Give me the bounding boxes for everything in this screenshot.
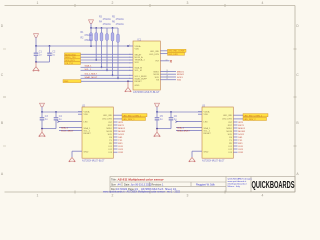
ground GND2 xyxy=(125,81,131,91)
svg-text:470ohm: 470ohm xyxy=(103,19,111,21)
svg-text:IO31: IO31 xyxy=(118,152,124,154)
svg-text:Size: Size xyxy=(111,183,116,186)
svg-text:RESET: RESET xyxy=(204,133,212,135)
svg-text:10: 10 xyxy=(166,59,168,61)
wire VCC stem xyxy=(35,37,37,46)
svg-text:LED_IND_CONN_2: LED_IND_CONN_2 xyxy=(244,115,263,117)
svg-text:VDD: VDD xyxy=(135,49,140,51)
svg-text:LED_IND: LED_IND xyxy=(103,115,112,117)
node junction (157,112) xyxy=(156,111,158,113)
svg-text:MOSI: MOSI xyxy=(107,131,113,133)
svg-text:GND: GND xyxy=(135,85,140,87)
svg-text:SCK_RX1: SCK_RX1 xyxy=(65,60,75,62)
svg-text:AS7265X-MULTI-BLGT: AS7265X-MULTI-BLGT xyxy=(133,91,160,94)
svg-text:Reggiani W. 5dlk: Reggiani W. 5dlk xyxy=(196,183,216,186)
capacitor C1 xyxy=(34,46,43,62)
svg-text:19: 19 xyxy=(166,78,168,80)
svg-text:MOSI1: MOSI1 xyxy=(118,131,126,133)
svg-text:SCL1_MULT: SCL1_MULT xyxy=(85,74,98,76)
svg-text:LED: LED xyxy=(204,121,209,123)
svg-text:4: 4 xyxy=(262,194,264,198)
wire LED pin xyxy=(59,121,83,123)
IC1 right red pin texts xyxy=(170,60,185,82)
svg-text:IO21: IO21 xyxy=(118,149,124,151)
frame labels xyxy=(1,1,300,198)
IC1 pin names inside xyxy=(135,45,148,87)
svg-text:1: 1 xyxy=(37,194,39,198)
svg-text:470ohm: 470ohm xyxy=(116,19,124,21)
svg-text:SCL_M: SCL_M xyxy=(135,70,142,72)
svg-text:LED: LED xyxy=(84,121,89,123)
svg-text:LED_DRV: LED_DRV xyxy=(222,119,232,121)
resistor value labels right xyxy=(112,16,124,26)
svg-text:LED_DRV_1: LED_DRV_1 xyxy=(123,119,136,121)
svg-text:SCK1: SCK1 xyxy=(118,134,124,136)
svg-text:RST: RST xyxy=(228,125,233,127)
IC2 GND wire xyxy=(72,150,82,152)
svg-text:470ohm: 470ohm xyxy=(116,24,124,26)
resistor value labels middle xyxy=(99,16,111,26)
wire VCC rail xyxy=(157,111,202,113)
svg-text:QUICKBOARDS: QUICKBOARDS xyxy=(252,180,295,191)
svg-text:SCK: SCK xyxy=(155,77,160,79)
IC2 right pin stubs + red texts xyxy=(113,122,126,154)
IC3 GND wire xyxy=(192,150,202,152)
svg-text:MISO: MISO xyxy=(227,128,233,130)
svg-text:17: 17 xyxy=(166,73,168,75)
op IC1 xyxy=(133,39,160,94)
svg-text:2: 2 xyxy=(112,1,114,5)
ground GND4 xyxy=(69,157,75,161)
IC2 left pin stubs xyxy=(78,112,82,115)
node junction (36,62) xyxy=(35,61,37,63)
power VCC P1 xyxy=(34,34,39,38)
capacitor C4 xyxy=(54,112,63,129)
svg-text:1: 1 xyxy=(37,1,39,5)
svg-text:LED_IND_CONN_1: LED_IND_CONN_1 xyxy=(123,115,142,117)
svg-text:4: 4 xyxy=(262,1,264,5)
svg-text:RESET: RESET xyxy=(84,133,92,135)
net label stack (4) left of IC1 xyxy=(65,53,81,65)
power VCC P2 xyxy=(89,20,94,24)
svg-text:VDD: VDD xyxy=(204,114,209,116)
wire SCL1_MULT (bottom left) xyxy=(59,130,82,132)
svg-text:AS7265X-MULTI-BLGT: AS7265X-MULTI-BLGT xyxy=(202,160,225,163)
wire VCC stem xyxy=(41,107,43,112)
svg-text:SCK: SCK xyxy=(135,62,140,64)
IC3 right label wires xyxy=(233,114,243,116)
svg-text:SDA_1: SDA_1 xyxy=(61,126,69,129)
svg-text:VDDA: VDDA xyxy=(84,110,91,113)
svg-text:IO11: IO11 xyxy=(238,146,243,148)
wire GND net xyxy=(81,80,131,82)
svg-text:SDA_1: SDA_1 xyxy=(85,65,93,68)
IC2 pin names inside xyxy=(84,110,92,153)
doc row xyxy=(111,188,177,191)
capacitor C5 xyxy=(155,112,164,129)
wire VCC2 stem xyxy=(90,23,92,28)
svg-text:RST: RST xyxy=(108,125,113,127)
svg-text:IO21: IO21 xyxy=(238,149,244,151)
svg-text:CS_TX1: CS_TX1 xyxy=(65,63,74,65)
svg-text:SDA_1: SDA_1 xyxy=(204,127,212,130)
svg-text:SCK1: SCK1 xyxy=(238,134,244,136)
svg-text:LED_DRV: LED_DRV xyxy=(168,54,178,56)
svg-text:470ohm: 470ohm xyxy=(84,40,92,42)
node junction (49.5,46) xyxy=(49,45,51,47)
svg-text:RST1: RST1 xyxy=(238,125,244,127)
wire LED pin xyxy=(177,121,203,123)
svg-text:INT1: INT1 xyxy=(238,122,244,124)
svg-text:18: 18 xyxy=(166,76,168,78)
svg-text:Revision:: Revision: xyxy=(152,183,163,186)
svg-text:LED_IND: LED_IND xyxy=(223,115,232,117)
ground GND1 xyxy=(33,62,39,71)
svg-text:LED_IND_CONN: LED_IND_CONN xyxy=(168,51,185,53)
resistor R3 xyxy=(100,28,103,68)
wire resistor top bus xyxy=(91,27,118,29)
svg-text:INT1: INT1 xyxy=(118,122,124,124)
resistor R4 xyxy=(106,28,109,71)
node junction (42,128.6) xyxy=(41,128,43,130)
svg-text:GND: GND xyxy=(64,81,69,83)
svg-text:AS-811 Multiplexed color senso: AS-811 Multiplexed color sensor xyxy=(117,177,165,181)
svg-text:16: 16 xyxy=(166,70,168,72)
IC1 right net labels xyxy=(168,49,187,56)
svg-text:MISO: MISO xyxy=(107,128,113,130)
svg-text:SDA_1: SDA_1 xyxy=(177,126,185,129)
svg-text:470ohm: 470ohm xyxy=(103,24,111,26)
wire SCL1_MULT xyxy=(81,74,131,76)
svg-text:SCK: SCK xyxy=(228,134,233,136)
svg-text:SDA1_MULT: SDA1_MULT xyxy=(177,130,190,133)
svg-text:SCK1: SCK1 xyxy=(177,77,183,79)
svg-text:LED_DRV_2: LED_DRV_2 xyxy=(244,119,257,121)
wire net1 xyxy=(81,53,131,55)
ground GND6 xyxy=(189,157,195,161)
svg-text:SCL1_MULT: SCL1_MULT xyxy=(61,131,74,133)
wire SDA_1 (bottom mid) xyxy=(176,127,202,129)
node junction (56,112) xyxy=(55,111,57,113)
wire cap bottoms xyxy=(36,61,50,63)
wire VCC rail top-left xyxy=(36,45,131,47)
resistor R1 xyxy=(90,28,93,46)
IC1 right pin stubs xyxy=(160,51,176,80)
size/date row xyxy=(111,183,216,186)
IC1 left pin stubs xyxy=(129,46,133,81)
node junction pin1 (128,46) xyxy=(127,45,129,47)
svg-text:LED_DRV: LED_DRV xyxy=(102,119,112,121)
svg-text:MOSI1: MOSI1 xyxy=(177,74,185,76)
svg-text:Jun 06 03:13 2022: Jun 06 03:13 2022 xyxy=(131,183,152,186)
IC3 right pin stubs + red texts xyxy=(233,122,246,154)
svg-text:MOSI: MOSI xyxy=(154,74,160,76)
wire cap bottoms xyxy=(157,128,171,130)
svg-text:MOSI: MOSI xyxy=(227,131,233,133)
svg-text:SCL_1: SCL_1 xyxy=(85,69,92,71)
svg-text:2: 2 xyxy=(112,194,114,198)
wire net3 xyxy=(81,59,131,61)
node junctions on bus xyxy=(90,27,92,29)
svg-text:MISO_TX0: MISO_TX0 xyxy=(65,57,76,59)
svg-text:3: 3 xyxy=(187,194,189,198)
svg-text:Title:: Title: xyxy=(111,178,117,182)
svg-text:SCK: SCK xyxy=(108,134,113,136)
svg-text:MOSI1: MOSI1 xyxy=(238,131,246,133)
svg-text:IO31: IO31 xyxy=(238,152,244,154)
company cell text xyxy=(228,177,253,188)
svg-text:Date:: Date: xyxy=(124,183,130,186)
svg-text:470ohm: 470ohm xyxy=(84,35,92,37)
svg-text:GND: GND xyxy=(204,152,209,154)
op IC3 xyxy=(202,106,233,163)
svg-text:Milano - Italy: Milano - Italy xyxy=(228,185,241,188)
wire VCC stem xyxy=(156,107,158,112)
frame border xyxy=(3,4,297,194)
svg-text:www.quickboards.it - AS7265X: www.quickboards.it - AS7265X Multiplexed… xyxy=(103,190,181,193)
svg-text:3: 3 xyxy=(187,1,189,5)
svg-text:MOSI_RX0: MOSI_RX0 xyxy=(65,54,76,56)
node junction (91,46) xyxy=(90,45,92,47)
power VCC P3 xyxy=(40,103,45,107)
node junction (128,81.3) xyxy=(127,80,129,82)
svg-text:GND: GND xyxy=(84,152,89,154)
svg-text:LED_DRV: LED_DRV xyxy=(149,54,159,56)
resistor value labels left xyxy=(81,32,93,42)
svg-text:VDD: VDD xyxy=(84,114,89,116)
node junction (157,128.6) xyxy=(156,128,158,130)
resistor R2 xyxy=(95,28,98,61)
IC3 right net labels xyxy=(243,114,268,121)
svg-text:AS7265X-MULTI-BLGT: AS7265X-MULTI-BLGT xyxy=(82,160,105,163)
svg-text:IO11: IO11 xyxy=(118,146,123,148)
svg-text:VDDA: VDDA xyxy=(204,110,211,113)
capacitor C2 xyxy=(47,46,56,62)
op IC2 xyxy=(82,106,113,163)
wire cap bottoms xyxy=(42,128,56,130)
node junction (171,112) xyxy=(170,111,172,113)
wire SDA_1 xyxy=(81,66,131,68)
svg-text:MISO: MISO xyxy=(154,71,160,73)
ground GND3 xyxy=(39,129,45,137)
capacitor C6 xyxy=(169,112,178,129)
wire VCC rail xyxy=(42,111,82,113)
IC2 right net labels xyxy=(122,114,147,121)
wire SDA_1 (bottom left) xyxy=(59,127,82,129)
net label GND xyxy=(63,80,81,84)
resistor R5 xyxy=(111,28,114,76)
resistor R6 xyxy=(117,28,120,79)
IC2 right label wires xyxy=(113,114,122,116)
IC3 pin names inside xyxy=(204,110,212,153)
node junction (42,112) xyxy=(41,111,43,113)
node junction (36,46) xyxy=(35,45,37,47)
svg-text:MISO1: MISO1 xyxy=(177,71,185,73)
wire SCL_1 xyxy=(81,69,131,71)
wire net2 xyxy=(81,56,131,58)
svg-text:SDA_1: SDA_1 xyxy=(84,127,92,130)
power VCC P4 xyxy=(155,103,160,107)
svg-text:SDA_M: SDA_M xyxy=(135,66,143,69)
svg-text:RESET: RESET xyxy=(135,81,143,83)
capacitor C3 xyxy=(40,112,49,129)
svg-text:SDA1_MULT: SDA1_MULT xyxy=(85,76,98,79)
ground GND5 xyxy=(154,129,160,137)
wire net4 xyxy=(81,62,131,64)
wire SDA1_MULT (bottom mid) xyxy=(176,130,202,132)
svg-text:MISO1: MISO1 xyxy=(238,128,246,130)
IC3 left pin stubs xyxy=(198,112,202,115)
svg-text:MISO1: MISO1 xyxy=(118,128,126,130)
wire SDA1_MULT xyxy=(81,77,131,79)
svg-text:RST1: RST1 xyxy=(118,125,124,127)
